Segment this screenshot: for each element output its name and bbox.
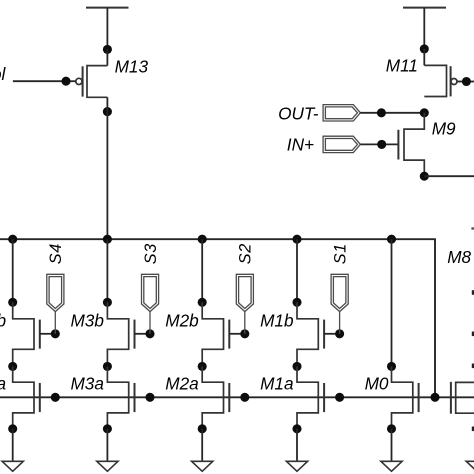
node: gate bus junction M2a — [240, 393, 249, 402]
port S4 — [47, 274, 64, 334]
ground symbol col M3a — [97, 461, 118, 471]
svg-text:S1: S1 — [331, 243, 349, 264]
ground symbol col M1a — [286, 461, 307, 471]
ground symbol col M4a — [2, 461, 23, 471]
node: M3a source — [103, 424, 112, 433]
label S4 — [47, 243, 65, 264]
transistor M4a (NMOS) — [13, 366, 40, 428]
node: M11 drain / M9 drain junction — [420, 108, 429, 117]
label IN+ — [287, 135, 314, 155]
node: M11 source junction — [420, 44, 429, 53]
label M1a — [260, 374, 293, 394]
transistor M1b (NMOS) — [297, 302, 340, 366]
wire: bus to M0 drain — [391, 239, 393, 366]
svg-text:M0: M0 — [365, 374, 389, 394]
svg-text:IN+: IN+ — [287, 135, 314, 155]
svg-text:M2b: M2b — [165, 311, 199, 331]
wire: M9 source to right edge — [424, 175, 474, 177]
node: M3a drain — [103, 362, 112, 371]
ground symbol col M2a — [192, 461, 213, 471]
node: gate bus junction M0 — [430, 393, 439, 402]
transistor M13 (PMOS) — [76, 49, 108, 97]
node: M3b drain — [103, 298, 112, 307]
node: M1b drain — [292, 298, 301, 307]
node: M9 source junction — [420, 172, 429, 181]
wire: M4a source to ground — [12, 429, 14, 462]
node: gate bus junction M4a — [51, 393, 60, 402]
node: M0 source — [387, 424, 396, 433]
label M8 — [447, 247, 471, 267]
wire: cascode bias bus — [0, 239, 435, 397]
net label (cut off at left edge) — [0, 64, 7, 84]
label M4b — [0, 311, 6, 331]
wire: M11 gate to right edge — [457, 81, 474, 83]
label M13 — [115, 56, 149, 76]
label M9 — [432, 118, 456, 138]
port S1 — [331, 274, 348, 334]
node: M13 drain junction — [103, 107, 112, 116]
node on M13 gate wire — [61, 77, 70, 86]
node: M4b drain — [8, 298, 17, 307]
label M11 — [386, 56, 418, 76]
label OUT- — [278, 103, 319, 123]
node: M3b gate — [145, 329, 154, 338]
svg-text:M13: M13 — [115, 56, 149, 76]
svg-text:M9: M9 — [432, 118, 456, 138]
transistor M1a (NMOS) — [297, 366, 324, 428]
ground symbol (cut at right edge) — [466, 461, 474, 471]
node: M0 drain — [387, 362, 396, 371]
label M2a — [165, 374, 198, 394]
transistor M9 (NMOS) — [398, 113, 424, 176]
svg-text:S3: S3 — [142, 243, 160, 264]
node: M4b gate — [51, 329, 60, 338]
transistor M11 (PMOS, mirrored) — [424, 49, 457, 97]
wire: OUT- to M11/M9 junction — [360, 112, 424, 114]
label M2b — [165, 311, 199, 331]
label S1 — [331, 243, 349, 264]
label M0 — [365, 374, 389, 394]
node: bias bus junction col M1a — [292, 235, 301, 244]
transistor M0 (NMOS) — [392, 366, 419, 428]
transistor M2a (NMOS) — [202, 366, 229, 428]
power rail VDD (right) — [403, 8, 446, 49]
node: M4a drain — [8, 362, 17, 371]
svg-text:M4b: M4b — [0, 311, 6, 331]
node: M2b gate — [240, 329, 249, 338]
wire: bus to M4b drain — [12, 239, 14, 302]
wire: IN+ to M9 gate — [360, 143, 398, 145]
transistor M3b (NMOS) — [107, 302, 150, 366]
svg-text:M2a: M2a — [165, 374, 198, 394]
node on IN+ wire — [377, 140, 386, 149]
wire: M2a source to ground — [201, 429, 203, 462]
svg-text:M3b: M3b — [70, 311, 104, 331]
node: bias bus junction col M0 — [387, 235, 396, 244]
node on OUT- wire — [377, 108, 386, 117]
label M3b — [70, 311, 104, 331]
transistor M2b (NMOS) — [202, 302, 245, 366]
node: gate bus junction M3a — [145, 393, 154, 402]
label M3a — [70, 374, 103, 394]
transistor M3a (NMOS) — [107, 366, 134, 428]
node on M11 gate wire — [462, 77, 471, 86]
label S2 — [237, 243, 255, 264]
svg-text:M11: M11 — [386, 56, 418, 76]
wire: M1a source to ground — [296, 429, 298, 462]
label S3 — [142, 243, 160, 264]
node: M2a drain — [198, 362, 207, 371]
svg-text:S4: S4 — [47, 243, 65, 264]
svg-text:OUT-: OUT- — [278, 103, 319, 123]
svg-text:M8: M8 — [447, 247, 471, 267]
wire: bus to M1b drain — [296, 239, 298, 302]
node: M1b gate — [335, 329, 344, 338]
node: M13 source junction — [103, 45, 112, 54]
label M1b — [260, 311, 294, 331]
node: right edge junctions (cut) — [471, 227, 474, 431]
node: gate bus junction M1a — [335, 393, 344, 402]
node: M1a source — [292, 424, 301, 433]
node: M4a source — [8, 424, 17, 433]
svg-text:S2: S2 — [237, 243, 255, 264]
node: M2a source — [198, 424, 207, 433]
wire: bus to M2b drain — [201, 239, 203, 302]
wire: M0 source to ground — [391, 429, 393, 462]
node: bias bus junction col M4a — [8, 235, 17, 244]
node: M1a drain — [292, 362, 301, 371]
power rail VDD (left) — [86, 8, 129, 50]
transistor M8 (NMOS, diode-connected, cut at right edge) — [451, 382, 474, 414]
wire: M13 drain to bias bus — [106, 97, 108, 239]
node: bias bus junction col M2a — [198, 235, 207, 244]
port S3 — [142, 274, 159, 334]
wire: M3a source to ground — [106, 429, 108, 462]
wire: gate of M13 from left edge — [13, 80, 76, 82]
port S2 — [236, 274, 253, 334]
svg-text:M3a: M3a — [70, 374, 103, 394]
svg-text:M1a: M1a — [260, 374, 293, 394]
transistor M4b (NMOS) — [13, 302, 56, 366]
svg-text:M1b: M1b — [260, 311, 294, 331]
svg-text:M4a: M4a — [0, 374, 6, 394]
ground symbol col M0 — [381, 461, 402, 471]
wire: mirror gate bus — [0, 396, 474, 398]
port IN+ — [323, 136, 360, 152]
label M4a — [0, 374, 6, 394]
wire: bus to M3b drain — [106, 239, 108, 302]
node: bias bus junction col M3a — [103, 235, 112, 244]
node: M2b drain — [198, 298, 207, 307]
port OUT- — [323, 105, 360, 121]
